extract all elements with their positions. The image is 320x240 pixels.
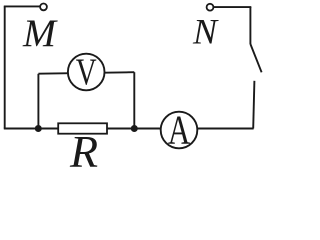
junction node: resistor/voltmeter right — [131, 125, 138, 132]
wire: left vertical from M branch down to bottom rail — [4, 6, 6, 128]
resistor R body — [58, 123, 107, 133]
svg-text:N: N — [192, 12, 219, 52]
wire: top-right horizontal from terminal N — [213, 6, 251, 8]
svg-text:A: A — [168, 107, 190, 152]
wire: voltmeter branch right vertical — [133, 72, 135, 128]
ammeter A1 body — [161, 112, 198, 149]
svg-text:V: V — [76, 52, 97, 93]
svg-text:M: M — [22, 11, 58, 55]
voltmeter V1 body — [68, 54, 105, 91]
wire: top-left horizontal to terminal M — [4, 5, 40, 7]
junction node: resistor/voltmeter left — [35, 125, 42, 132]
wire: right upper vertical to switch — [249, 7, 251, 44]
wire: right lower vertical from switch to bottom rail — [253, 81, 254, 129]
wire: bottom rail — [4, 128, 254, 130]
switch S (open) blade — [250, 44, 261, 72]
terminal M (binding post circle) — [40, 4, 47, 11]
wire: voltmeter branch left vertical — [37, 74, 39, 129]
svg-text:R: R — [69, 126, 98, 169]
wire: voltmeter branch horizontal — [38, 72, 134, 74]
terminal N (binding post circle) — [207, 4, 214, 11]
